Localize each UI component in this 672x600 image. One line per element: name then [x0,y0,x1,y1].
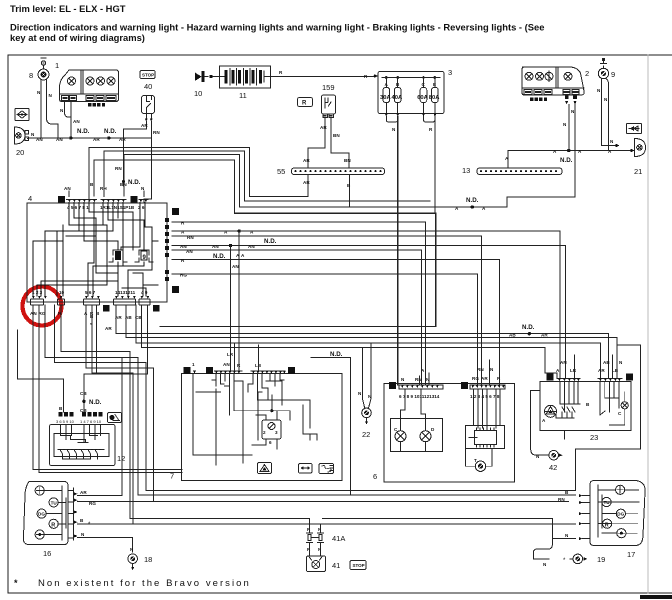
svg-text:J: J [174,288,177,294]
svg-text:5 6 7: 5 6 7 [85,290,96,295]
wire N from 16 to earth 18 [78,538,133,552]
svg-text:30A: 30A [380,95,391,101]
svg-text:AR: AR [303,180,310,185]
svg-text:AR: AR [80,490,87,495]
interior of 7: indicator contacts [212,374,284,392]
svg-text:D: D [60,198,64,204]
diamond icon box left [15,109,29,121]
svg-text:*: * [88,522,91,528]
wire BN into 4 top [123,186,125,196]
svg-text:DG: DG [617,512,624,517]
svg-text:T: T [474,458,477,463]
wire ND wrap left edge [311,358,351,496]
stop lamp 41 [307,544,341,572]
svg-text:9: 9 [611,70,615,79]
wire N from 9 [602,79,616,146]
svg-text:BN: BN [344,158,351,163]
svg-text:N.D.: N.D. [104,128,117,135]
svg-text:1 2 3: 1 2 3 [32,290,43,295]
svg-text:AB: AB [603,360,610,365]
svg-text:18: 18 [144,555,152,564]
reversing switch 159 [322,83,336,118]
svg-text:6: 6 [269,440,272,445]
bottom pins 567 of 4 [84,290,101,316]
pin row A of 4 [138,200,148,211]
svg-text:AN: AN [223,362,230,367]
svg-text:BN: BN [333,133,340,138]
svg-text:R: R [279,70,283,75]
wire AR from 159 [308,118,325,169]
long wire RN to 17 y502 [154,501,569,503]
svg-text:N: N [563,122,567,127]
wire N drop to 19 [533,539,552,559]
svg-text:G: G [463,384,467,390]
svg-text:N: N [81,532,85,537]
wire N from fuse box 3 (long vertical) [397,117,399,385]
interior wires of 7 [193,374,317,465]
svg-text:19: 19 [597,555,605,564]
svg-text:3: 3 [275,430,278,435]
svg-text:N: N [619,360,623,365]
svg-text:1: 1 [192,362,195,367]
svg-text:N: N [610,139,614,144]
wire B below 55 [349,175,351,208]
wire AR loop from 4 top to 55 [89,148,308,203]
hazard unit 12 [50,425,126,466]
pilot lamp in 23 [609,392,628,425]
svg-text:N: N [37,90,41,95]
wire A ND junction right [459,197,507,207]
connector A on 23 [626,374,633,381]
svg-text:AN: AN [73,119,80,124]
connector G below 4 [103,305,110,312]
wire N into 4 top [143,191,145,197]
wire N from 2 second terminal [507,105,575,208]
svg-text:B: B [347,183,351,188]
wire 9pin CB to 12 [84,305,148,412]
svg-text:C: C [618,411,622,416]
wire B into 4 top [93,186,95,196]
R icon box [298,98,313,107]
wire AN from H pin y250 [172,250,421,385]
wire RG from 4 pin2 down and under 12 [39,305,182,473]
svg-text:55: 55 [277,167,285,176]
svg-text:17: 17 [627,550,635,559]
pin row C2 of 7 [251,371,286,374]
svg-text:1 2 3 4 5 6 7 8: 1 2 3 4 5 6 7 8 [470,394,500,399]
gauge C [395,431,406,442]
svg-text:B: B [586,402,590,407]
svg-text:AN: AN [64,186,71,191]
fuse box 3 [378,68,452,114]
wire AR from 40 to 4 [124,129,147,186]
connector 21 [634,139,646,177]
svg-text:R: R [181,258,185,263]
long wire R y518 [130,518,309,520]
svg-text:RN: RN [477,367,484,372]
flasher unit 11 [220,66,271,100]
svg-text:159: 159 [322,83,335,92]
diamond icon box right [627,124,642,134]
svg-text:AR: AR [320,125,327,130]
svg-text:N: N [490,367,494,372]
svg-text:H: H [174,210,178,216]
svg-text:1: 1 [55,61,59,70]
stop icon box bottom [350,561,366,570]
svg-text:2: 2 [585,69,589,78]
fuse 30A [383,88,390,103]
svg-text:R: R [237,363,241,368]
svg-text:41A: 41A [332,534,345,543]
connector N on 23 [547,374,554,381]
long wire B to 17 y495 [138,494,575,496]
svg-text:14131211: 14131211 [115,290,136,295]
wire 4pin to bundle y347.5 [142,305,558,378]
svg-text:4: 4 [28,194,32,203]
svg-text:N: N [565,533,569,538]
wire AR below 55 [307,175,309,187]
svg-text:1 4 7 6 9 10: 1 4 7 6 9 10 [80,419,102,424]
wire N from 2 to junction A [568,105,570,151]
svg-text:AN: AN [186,249,193,254]
horn symbol 10 [194,71,212,98]
connector D on 4 [58,196,65,203]
connector dots under 2 [530,98,547,101]
svg-text:AR: AR [105,326,112,331]
svg-text:N: N [60,108,64,113]
node junction AN [69,136,72,139]
svg-text:N: N [401,377,405,382]
svg-text:10: 10 [194,89,202,98]
wire A from 13 up to ND junction [508,151,633,169]
wire B from 16 to 17 [78,523,576,525]
pins arrows on 16 [74,492,77,537]
wire BN loop from 4 top [124,155,459,208]
wire joining fuse A and B [386,117,397,123]
connector D on 7 [288,367,295,374]
wire N loop around 23 lower [531,391,565,456]
svg-text:23: 23 [590,433,598,442]
earth point 22 [358,343,372,439]
svg-text:A: A [628,376,632,382]
wire joining fuse C and E [424,117,435,123]
wire AN down from junction to 7 [230,246,232,371]
svg-text:3 6 5 9 10: 3 6 5 9 10 [56,419,75,424]
svg-text:20: 20 [16,148,24,157]
electronic module inside 6 [466,389,505,449]
wire AR from 4 bottom to bundle [116,305,608,378]
pin row centre of 4 [100,200,135,211]
wire RN into 4 top [103,191,105,197]
ignition device 9 [598,58,615,79]
wire RN continues down [151,138,153,160]
svg-text:B: B [59,406,63,411]
svg-text:B: B [80,518,84,523]
connector dots under 1 [88,103,105,106]
svg-text:N.D.: N.D. [560,157,573,164]
arrows symbol box in 7 [299,464,313,474]
connector B on 6 [389,382,396,389]
wire LR into 23 [573,355,575,378]
inner wiring web of 4 [33,203,158,297]
svg-text:N: N [130,547,134,552]
wire RG from 16 [78,501,154,503]
lamp cluster 1 [55,61,119,102]
svg-text:4 9: 4 9 [141,290,148,295]
svg-text:60A: 60A [417,95,428,101]
wire RN from 40 down [144,160,152,203]
wire N into 6 G strip [488,360,490,385]
svg-text:A: A [542,418,546,423]
svg-text:AR: AR [141,123,148,128]
svg-text:*: * [14,578,18,588]
switch unit 4 (steering column) [27,194,167,302]
wire hook pin B [96,305,98,373]
wire AN into 4 top [68,191,70,197]
svg-text:N.D.: N.D. [128,179,141,186]
switch contact symbol 1 inside 4 [109,250,127,262]
svg-text:11: 11 [239,91,247,100]
svg-text:8: 8 [29,71,33,80]
svg-text:N: N [49,93,53,98]
instrument cluster 7 [170,374,342,481]
lamp cluster 16 [23,482,73,559]
connector strip 13 [462,166,562,175]
svg-text:A: A [241,253,245,258]
fuse 60A [420,88,427,103]
svg-text:7: 7 [170,472,174,481]
bottom pins 49 of 4 [139,290,150,305]
body computer 6 [373,384,515,483]
svg-text:A: A [224,230,228,235]
wire LB down to 7 [258,345,260,370]
pins under 2 right [565,96,577,105]
wire AR from 16 [78,358,123,496]
wire R from H pin y259.5 [172,260,499,386]
warning lamp 8 [29,58,49,80]
connector A on 7 [184,367,191,374]
svg-text:AN: AN [36,137,43,142]
svg-text:21: 21 [634,167,642,176]
title text [10,3,544,43]
svg-text:R: R [181,221,185,226]
svg-text:AN: AN [232,264,239,269]
svg-text:C: C [208,369,212,375]
svg-text:16: 16 [43,549,51,558]
footnote text [14,578,251,589]
lamp cluster 2 [522,67,589,95]
wire RG from J pin y274 [172,274,478,385]
wire AB from 4 bottom to bundle [126,305,617,378]
svg-text:DG: DG [38,512,45,517]
wire R from 4 pin10 to 41A line [61,305,130,519]
wire N loop under boxes [146,489,576,491]
svg-text:4 5 6 7 8 1: 4 5 6 7 8 1 [67,205,89,210]
connector 20 [15,127,29,157]
wire N short into 6 [428,373,430,385]
wire AN from cluster 1 [70,102,72,139]
svg-text:R: R [429,127,433,132]
wire B to 12 [18,330,64,412]
wire LR down to 7 [234,343,236,370]
lamp cluster 17 [590,481,645,560]
wire CB from 4 bottom to 12 [136,305,601,378]
svg-text:Non existent for the Bravo ver: Non existent for the Bravo version [38,578,251,589]
svg-text:42: 42 [549,463,557,472]
svg-text:A: A [181,230,185,235]
connector 41A [307,519,346,543]
bottom pins 14131211 of 4 [114,290,143,320]
fuse 80A [432,88,439,103]
svg-text:AN: AN [560,360,567,365]
svg-text:N.D.: N.D. [330,351,343,358]
wire N loop pin to 42 area [54,305,146,490]
red circle [23,287,62,326]
svg-text:80A: 80A [429,95,440,101]
svg-text:RN: RN [415,377,422,382]
svg-text:2: 2 [263,430,266,435]
switch contact symbol 9 inside 4 [135,250,153,262]
node junction A ND [567,149,570,152]
node junction AR [107,136,110,139]
hazard triangle symbol in 23 [542,405,557,423]
wire RH loop from 4 top [104,151,430,201]
svg-text:AR: AR [93,137,100,142]
wire R segment right of 41A [323,519,576,539]
wire N from 9 second [606,79,609,151]
svg-text:AN: AN [56,137,63,142]
stop label box 40 [140,71,155,92]
svg-text:AR: AR [598,368,605,373]
pin row D of 4 [67,200,97,211]
wire N from loop into 23 [575,345,640,490]
pins of 40 [146,114,151,119]
connector C on 7 [206,367,213,374]
svg-text:LR: LR [570,368,577,373]
svg-text:AR: AR [119,137,126,142]
svg-text:A: A [578,149,582,154]
svg-text:AR: AR [541,333,548,338]
svg-text:13: 13 [462,166,470,175]
svg-text:D: D [431,427,435,432]
svg-text:6: 6 [373,472,377,481]
switch contacts in 23 [545,382,619,419]
svg-text:RG: RG [180,273,187,278]
wire B loop from 4 top [94,160,436,327]
pin row B of 6 [399,385,443,399]
svg-text:LR: LR [227,352,234,357]
svg-text:AN: AN [30,311,37,316]
pin row A of 23 [598,379,622,382]
svg-text:2 6: 2 6 [138,205,145,210]
lights symbol box in 7 [319,464,334,474]
wire RN from H pin y236 [172,236,482,385]
svg-text:N.D.: N.D. [522,324,535,331]
wire R from H pin y222 [172,222,425,385]
connector box right below 4 [153,305,160,312]
svg-text:N.D.: N.D. [213,253,226,260]
svg-text:Direction indicators and warni: Direction indicators and warning light -… [10,22,544,33]
wire RN short into 6 [418,376,420,385]
wire RN hook pin A [86,305,154,502]
pin row N of 23 [557,379,580,382]
svg-text:N.D.: N.D. [466,197,479,204]
svg-text:40A: 40A [392,95,403,101]
wire A from H pin y231 [172,231,560,378]
svg-text:40: 40 [144,82,152,91]
svg-text:B: B [391,384,395,390]
fuse 40A [394,88,401,103]
svg-text:R: R [51,523,55,529]
pin row C of 7 [215,371,243,374]
svg-text:AB: AB [509,333,516,338]
pins of 12 group1 [59,412,103,417]
svg-text:A: A [132,198,136,204]
svg-text:RG: RG [89,501,96,506]
stop switch 40 body [142,96,155,114]
svg-text:key at end of wiring diagrams): key at end of wiring diagrams) [10,32,145,43]
svg-text:RN: RN [558,497,565,502]
svg-text:AN: AN [248,244,255,249]
svg-text:1R1L1N1S1P1B: 1R1L1N1S1P1B [100,205,135,210]
earth point 42 [536,450,563,472]
node junction AB/AR ND [528,332,531,335]
svg-text:A: A [185,369,189,375]
svg-text:RN: RN [115,166,122,171]
wire N from cluster 1 [65,102,72,118]
svg-text:22: 22 [362,430,370,439]
svg-text:AR: AR [303,158,310,163]
svg-text:N: N [571,109,575,114]
svg-text:Trim level: EL - ELX - HGT: Trim level: EL - ELX - HGT [10,3,126,14]
wire N from lamp 8 left [40,80,42,138]
wire R from 11 to fusebox 3 [270,75,374,78]
svg-text:41: 41 [332,561,340,570]
wire to flasher 11 [212,76,219,78]
wire AR from 40 [145,122,147,130]
svg-text:LB: LB [612,368,619,373]
svg-text:N: N [597,88,601,93]
turn gauges box inside 6 [391,389,443,452]
svg-text:R: R [302,101,307,107]
connector G on 6 [461,382,468,389]
svg-text:N.D.: N.D. [77,128,90,135]
interior of 12 [54,425,109,460]
svg-text:A: A [556,368,560,373]
svg-text:B: B [90,314,94,319]
hazard icon box near 12 [108,413,122,423]
svg-text:AR: AR [481,376,488,381]
svg-text:N: N [548,376,552,382]
bottom pin 10 of 4 [58,290,65,316]
pin row G of 6 [470,385,505,399]
wire A down from junction to 7 [238,231,240,370]
buzzer T inside 6 [466,438,493,472]
earth point 19 [563,554,605,564]
svg-text:10: 10 [59,290,65,295]
right edge pins of 4 [165,208,179,294]
pins arrows on 17 [579,494,582,540]
svg-text:N: N [31,132,35,137]
svg-text:N: N [604,97,608,102]
svg-text:RN: RN [153,130,160,135]
svg-text:STOP: STOP [142,73,154,78]
wire AN from H pin y245.5 [172,246,565,379]
wire AN from 4 pin1 down and under 12 [33,305,182,470]
svg-text:D: D [290,369,294,375]
wire B hook pin3 [45,305,138,495]
connector A on 4 [131,196,138,203]
